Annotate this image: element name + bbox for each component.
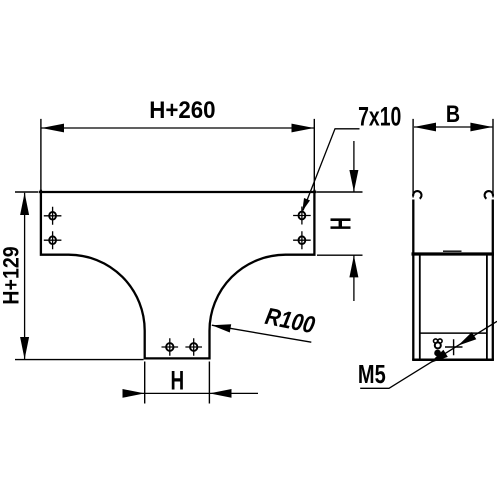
svg-text:7x10: 7x10: [358, 102, 401, 132]
T-piece body outline: [40, 191, 316, 359]
dimension H+129 arrow bottom: [20, 337, 29, 359]
dimension H+129 arrow top: [20, 193, 29, 215]
dimension H+260 arrow left: [42, 124, 65, 133]
M5 leader arrow lower: [430, 350, 448, 364]
dimension H+129 extension line bottom: [15, 359, 144, 361]
label 7x10 leader: [303, 129, 360, 211]
side view flange thick line: [412, 252, 495, 255]
side view inner wall right: [486, 256, 488, 360]
side view compartment line: [420, 332, 487, 334]
slot hole top-right 2: [293, 231, 311, 249]
side view left rail: [412, 200, 414, 361]
dimension H bottom extension lines: [145, 362, 210, 404]
dimension H+260 extension lines: [41, 119, 314, 190]
M5 screw circles: [434, 339, 443, 349]
svg-text:M5: M5: [358, 359, 386, 388]
side view right rail: [492, 200, 494, 361]
dimension B arrow right: [470, 123, 492, 132]
svg-text:B: B: [446, 100, 460, 127]
label 7x10 leader arrow: [302, 198, 310, 211]
dimension H+129 extension line top: [15, 191, 38, 193]
dimension H right line bottom: [353, 255, 355, 301]
M5 screw head: [434, 350, 441, 357]
svg-text:R100: R100: [263, 303, 318, 339]
dimension H+129 line: [24, 193, 26, 359]
dimension H+260 line: [42, 127, 315, 129]
dimension H right line top: [353, 141, 355, 192]
side view bottom line: [412, 359, 494, 362]
radius R100 leader: [212, 325, 311, 342]
dimension B line: [414, 126, 492, 128]
dimension H right extension lines: [317, 192, 363, 255]
svg-text:H: H: [325, 217, 357, 230]
M5 leader arrow upper: [458, 332, 476, 346]
dimension H right arrow top: [349, 170, 358, 192]
dimension H bottom arrow right: [210, 389, 232, 398]
M5 leader: [360, 321, 497, 388]
radius R100 arrow: [212, 324, 231, 332]
side view inner wall left: [419, 256, 421, 360]
slot hole stem left: [162, 338, 179, 356]
svg-text:H+129: H+129: [0, 246, 24, 304]
dimension B extension lines: [413, 119, 493, 198]
side view flange bump line: [443, 250, 462, 252]
side view right curl: [485, 191, 493, 199]
M5 position cross: [445, 339, 463, 355]
slot hole top-right 1: [293, 207, 311, 225]
dimension H bottom line: [123, 392, 259, 394]
slot hole top-left 1: [44, 207, 62, 225]
side view left curl: [413, 191, 421, 199]
slot hole top-left 2: [44, 231, 62, 249]
dimension H bottom arrow left: [123, 389, 145, 398]
svg-text:H: H: [170, 365, 184, 395]
dimension H+260 arrow right: [292, 124, 315, 133]
svg-text:H+260: H+260: [149, 96, 215, 123]
slot hole stem right: [185, 338, 202, 356]
dimension B arrow left: [414, 123, 436, 132]
dimension H right arrow bottom: [349, 255, 358, 277]
